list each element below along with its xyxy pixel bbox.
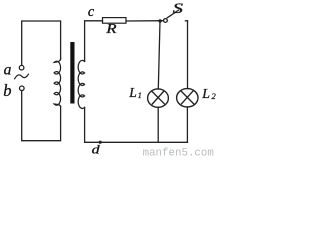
transformer core — [70, 42, 74, 104]
wire secondary top lead to node c — [85, 21, 103, 62]
wire lamp L1 branch top — [158, 21, 160, 89]
lamp L2 — [177, 89, 198, 107]
wire lamp L1 bottom — [157, 107, 159, 142]
resistor R body — [103, 18, 127, 24]
lamp L1 cross — [152, 91, 165, 104]
node d dot — [99, 141, 102, 144]
terminal a — [19, 65, 24, 70]
wire secondary bottom — [85, 107, 188, 142]
svg-text:c: c — [88, 4, 95, 20]
lamp L1 — [148, 89, 169, 107]
svg-text:d: d — [92, 143, 101, 157]
svg-text:a: a — [4, 61, 12, 78]
terminal b — [20, 86, 25, 91]
wire resistor to switch — [126, 20, 164, 22]
switch blade — [167, 10, 178, 18]
svg-text:R: R — [105, 22, 117, 37]
wire lamp L2 bottom — [186, 107, 188, 142]
junction dot at switch branch — [158, 19, 161, 22]
wire primary top — [22, 21, 61, 65]
transformer primary coil — [54, 59, 61, 107]
wire right vertical to lamp L2 — [187, 21, 189, 89]
svg-text:manfen5.com: manfen5.com — [143, 148, 214, 159]
lamp L2 cross — [181, 91, 194, 104]
svg-text:S: S — [173, 0, 183, 16]
switch right contact — [185, 20, 187, 22]
transformer secondary coil — [78, 60, 84, 108]
wire primary bottom — [22, 91, 61, 141]
switch pivot circle — [164, 19, 168, 23]
svg-text:b: b — [3, 81, 11, 100]
AC source tilde — [15, 74, 29, 79]
